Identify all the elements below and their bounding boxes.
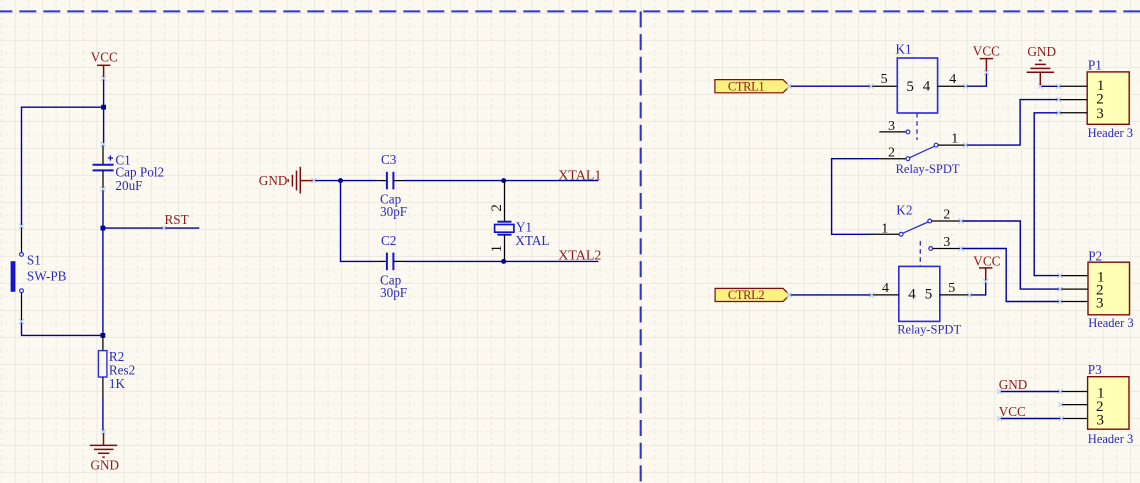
wire VCC to P3 pin3 [1000,418,1062,420]
svg-text:Relay-SPDT: Relay-SPDT [896,162,960,176]
power port GND top right [1027,60,1055,86]
svg-text:C3: C3 [381,152,397,167]
power port VCC K1 [980,59,993,73]
svg-text:5: 5 [906,79,914,95]
wire CTRL2 to K2 pin4 [790,294,872,296]
wire K2 pin3 to P2 pin3 [961,249,1060,302]
K2 pin 2 [932,220,961,222]
P1 pin 1 [1060,85,1087,87]
svg-text:Relay-SPDT: Relay-SPDT [897,323,961,337]
capacitor C3 [377,152,407,219]
svg-text:20uF: 20uF [115,178,142,193]
K1 blade [910,146,935,158]
svg-text:1: 1 [951,132,958,147]
svg-text:30pF: 30pF [380,285,407,300]
svg-text:P2: P2 [1088,248,1102,263]
svg-text:GND: GND [1027,44,1056,59]
svg-text:CTRL2: CTRL2 [728,288,765,302]
K2 pin 4 [872,294,899,296]
svg-text:P1: P1 [1088,58,1102,73]
header P2 [1060,248,1134,330]
junction R2 node [101,333,106,338]
wire C2 to XTAL2 [404,260,598,262]
K2 pin 1 [870,233,899,235]
relay K2 [870,202,969,336]
svg-text:Cap Pol2: Cap Pol2 [115,164,164,179]
header P3 [1060,362,1133,446]
svg-text:3: 3 [943,235,950,250]
svg-text:30pF: 30pF [380,204,407,219]
svg-text:4: 4 [882,281,889,296]
wire R2 to GND [102,397,104,432]
svg-text:VCC: VCC [999,404,1026,419]
svg-text:XTAL1: XTAL1 [558,168,601,183]
wire K1 pin4 to VCC [966,73,987,87]
svg-text:1K: 1K [109,376,126,391]
svg-text:K2: K2 [896,202,912,217]
power port GND middle [288,167,314,194]
svg-text:2: 2 [489,204,505,212]
port CTRL2 [715,288,790,301]
svg-text:1: 1 [881,221,888,236]
wire P1 pin3 to P2 pin1 [1034,113,1060,276]
relay K1 [879,41,965,176]
svg-text:CTRL1: CTRL1 [728,79,765,93]
K2 blade [903,222,928,233]
capacitor C1 [93,144,165,193]
svg-text:2: 2 [943,207,950,222]
svg-text:VCC: VCC [973,43,1000,58]
svg-text:GND: GND [91,458,120,473]
wire GND to P1 pin1 [1040,85,1060,87]
svg-text:RST: RST [165,212,189,227]
K1 pin 2 [879,158,906,160]
svg-text:Header 3: Header 3 [1088,126,1133,140]
wire C1 to RST node [102,192,104,228]
K1 actuation dashed line [916,113,918,140]
svg-text:4: 4 [908,287,916,303]
svg-text:3: 3 [1097,413,1105,429]
P2 pin 2 [1060,288,1088,290]
capacitor C2 [377,233,407,300]
resistor R2 [98,336,135,397]
svg-text:C2: C2 [381,233,396,248]
P2 pin 1 [1060,275,1088,277]
K2 pin 5 [940,294,970,296]
wire GND to P3 pin1 [1000,391,1061,393]
svg-text:XTAL: XTAL [515,233,549,248]
wire RST [103,227,199,229]
svg-text:5: 5 [881,72,888,87]
wire VCC to C1 [103,79,105,145]
wire K2 pin2 to P2 pin2 [961,221,1060,289]
P1 pin 2 [1059,99,1088,101]
sheet divider horizontal [0,10,1140,12]
svg-text:VCC: VCC [973,254,1000,269]
K1 pin 1 [938,144,966,146]
crystal Y1 [489,181,549,262]
wire K1 pin2 to K2 pin1 [832,159,880,235]
wire K1 pin1 to P1 pin2 [966,100,1059,146]
switch S1 [11,226,67,321]
junction node C3/C2 [338,178,343,183]
svg-text:GND: GND [259,173,288,188]
wire node to R2 [102,228,104,336]
P3 pin 2 [1061,404,1088,406]
svg-text:3: 3 [888,119,895,134]
K2 actuation dashed line [919,241,921,266]
svg-text:XTAL2: XTAL2 [558,249,601,264]
svg-text:S1: S1 [27,252,41,267]
svg-text:2: 2 [888,146,895,161]
P1 pin 3 [1059,112,1088,114]
connection point markers [19,70,1064,434]
power port VCC left [97,65,110,78]
svg-text:Header 3: Header 3 [1088,316,1133,330]
junction VCC node [101,105,106,110]
wire S1 bottom to node [22,321,103,335]
svg-text:3: 3 [1096,106,1104,122]
wire GND to C3 [314,180,377,182]
svg-text:4: 4 [949,72,956,87]
K1 pin 3 [879,131,906,133]
header P1 [1059,58,1133,140]
P3 pin 3 [1062,418,1088,420]
K2 pin 3 [929,247,933,251]
wire K2 pin5 to VCC [970,282,986,295]
junction RST node [101,226,106,231]
svg-text:K1: K1 [896,41,912,56]
svg-text:Header 3: Header 3 [1088,432,1133,446]
power port GND left [90,432,117,457]
wire branch down to C2 [341,181,378,262]
junction XTAL1 node [501,178,506,183]
wire C3 to XTAL1 [404,180,598,182]
svg-text:4: 4 [923,78,931,94]
svg-text:5: 5 [925,287,933,303]
svg-text:5: 5 [948,281,955,296]
svg-text:3: 3 [1096,295,1104,311]
svg-text:P3: P3 [1088,362,1102,377]
wire branch to S1 top [22,107,104,226]
svg-text:1: 1 [489,245,505,253]
wire CTRL1 to K1 pin5 [790,85,871,87]
sheet divider vertical [640,11,642,483]
svg-text:VCC: VCC [91,50,118,65]
junction XTAL2 node [501,259,506,264]
power port VCC K2 [979,268,992,282]
port CTRL1 [715,80,790,93]
P2 pin 3 [1060,301,1088,303]
svg-text:GND: GND [999,377,1028,392]
K1 pin 4 [938,85,966,87]
svg-text:Res2: Res2 [109,362,135,377]
K1 pin 5 [871,85,897,87]
P3 pin 1 [1060,391,1087,393]
svg-text:SW-PB: SW-PB [27,268,67,283]
